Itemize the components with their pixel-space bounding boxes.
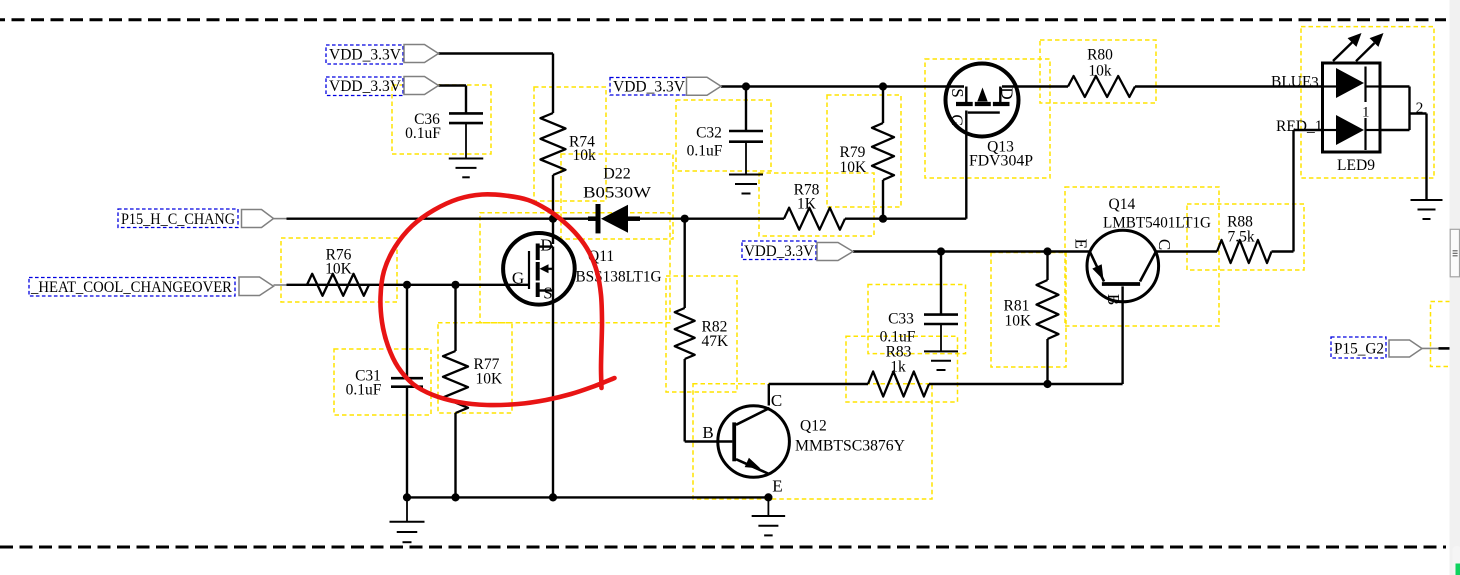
svg-text:LMBT5401LT1G: LMBT5401LT1G (1103, 215, 1211, 232)
LED LED9 (1323, 33, 1384, 174)
svg-text:BSS138LT1G: BSS138LT1G (576, 269, 662, 286)
wire R74 bottom to Q11 drain (552, 175, 554, 244)
red hand-drawn annotation circle around Q11 (380, 194, 614, 405)
svg-text:LED9: LED9 (1337, 157, 1375, 174)
svg-text:G: G (512, 269, 524, 288)
svg-text:10K: 10K (1005, 313, 1033, 330)
svg-text:MMBTSC3876Y: MMBTSC3876Y (795, 438, 905, 455)
svg-text:1K: 1K (797, 196, 817, 213)
svg-text:0.1uF: 0.1uF (405, 125, 441, 142)
wire Q14 collector to R88 (1156, 250, 1217, 252)
wire R83 to Q14 base net (929, 383, 1123, 385)
svg-text:10K: 10K (476, 371, 504, 388)
wire Q12 collector up (768, 384, 770, 406)
resistor R82 47K (675, 308, 729, 359)
net label RED pin 1 (1276, 118, 1323, 135)
wire VDD rail to R74 top (439, 54, 554, 114)
wire ground rail (407, 496, 768, 498)
resistor R77 10K (443, 351, 503, 413)
resistor R74 10k (541, 113, 597, 175)
svg-text:FDV304P: FDV304P (969, 153, 1033, 170)
transistor Q14 LMBT5401LT1G (1072, 196, 1212, 305)
svg-text:C33: C33 (888, 311, 914, 328)
wire C32 branch (745, 87, 747, 131)
scrollbar (1450, 0, 1460, 575)
svg-text:3: 3 (1311, 75, 1319, 92)
sheet border top dashed (0, 18, 1446, 21)
capacitor C31 0.1uF (346, 368, 423, 399)
svg-text:P15_G2: P15_G2 (1334, 341, 1384, 358)
wire VDD rail Q13 (721, 85, 964, 87)
svg-text:0.1uF: 0.1uF (346, 382, 382, 399)
wire LED9 right stubs to pin 2 (1380, 87, 1427, 200)
svg-text:0.1uF: 0.1uF (880, 329, 916, 346)
net label BLUE pin 3 (1271, 74, 1319, 92)
port VDD_3.3V (lower) (742, 241, 853, 261)
svg-text:2: 2 (1416, 100, 1424, 117)
svg-text:VDD_3.3V: VDD_3.3V (744, 243, 815, 260)
transistor Q13 FDV304P (946, 64, 1034, 170)
svg-text:E: E (772, 477, 782, 496)
svg-text:P15_H_C_CHANG: P15_H_C_CHANG (121, 211, 235, 228)
svg-text:_HEAT_COOL_CHANGEOVER: _HEAT_COOL_CHANGEOVER (30, 279, 233, 296)
svg-text:BLUE: BLUE (1271, 74, 1311, 91)
wire R80 to LED9 BLUE (1135, 85, 1323, 87)
wire Q11 source to ground rail (552, 291, 554, 498)
wire diode to R78 (640, 217, 784, 219)
wire C31 branch (406, 285, 408, 498)
svg-text:0.1uF: 0.1uF (687, 143, 723, 160)
ground C33 (924, 324, 958, 370)
svg-text:D: D (540, 236, 552, 255)
pin number 2 (1416, 100, 1424, 117)
wire VDD to C36 (439, 86, 467, 113)
resistor R88 7.5k (1217, 214, 1272, 264)
port VDD_3.3V (second) (326, 77, 439, 96)
svg-text:Q14: Q14 (1109, 196, 1136, 213)
wire C33 branch (940, 252, 942, 315)
wire R82 to Q12 base (685, 359, 733, 442)
diode D22 B0530W (583, 166, 652, 234)
resistor R80 10k (1068, 47, 1135, 98)
svg-text:R80: R80 (1087, 47, 1113, 64)
transistor Q11 BSS138LT1G (503, 233, 661, 305)
svg-text:10k: 10k (1088, 63, 1112, 80)
resistor R78 1K (784, 182, 845, 230)
svg-text:C: C (771, 391, 782, 410)
svg-text:D: D (997, 87, 1016, 99)
wire R82 to P15 net (684, 219, 686, 308)
svg-text:B: B (702, 423, 713, 442)
svg-text:C32: C32 (696, 125, 722, 142)
svg-text:E: E (1072, 239, 1091, 249)
transistor Q12 MMBTSC3876Y (702, 391, 905, 496)
svg-text:47K: 47K (702, 333, 730, 350)
wire R81 branch (1046, 252, 1048, 385)
wire VDD to Q14 emitter (853, 250, 1090, 252)
wire Q14 base down (1121, 286, 1123, 384)
svg-text:Q12: Q12 (800, 418, 827, 435)
wire net P15_H_C_CHANG (287, 217, 597, 219)
svg-text:VDD_3.3V: VDD_3.3V (329, 78, 402, 95)
wire Q12 collector to R83 (769, 383, 868, 385)
ground C36 (449, 124, 484, 177)
wire R79 branch (882, 87, 884, 219)
svg-text:RED_1: RED_1 (1276, 118, 1323, 135)
capacitor C36 0.1uF (405, 111, 483, 142)
svg-text:10K: 10K (325, 261, 353, 278)
ground main rail (390, 497, 425, 542)
svg-text:1: 1 (1362, 105, 1370, 121)
wire R88 to RED net (1272, 130, 1323, 252)
sheet border bottom dashed (0, 546, 1446, 549)
svg-text:D22: D22 (603, 166, 631, 183)
svg-text:10k: 10k (573, 147, 597, 164)
wire R77 branch (454, 285, 456, 498)
ground C32 (729, 143, 763, 194)
svg-text:C: C (1155, 239, 1174, 250)
resistor R81 10K (1004, 280, 1059, 339)
svg-text:B: B (1104, 294, 1123, 305)
ground LED9 pin 2 (1411, 114, 1443, 220)
svg-text:10K: 10K (840, 159, 868, 176)
port P15_H_C_CHANG (118, 209, 287, 228)
capacitor C32 0.1uF (687, 125, 763, 160)
svg-text:B0530W: B0530W (583, 185, 652, 202)
svg-text:VDD_3.3V: VDD_3.3V (329, 47, 402, 64)
wire gate net HEAT_COOL (287, 284, 530, 286)
wire R78 to Q13 gate (845, 111, 966, 219)
svg-text:G: G (948, 114, 967, 126)
svg-text:S: S (948, 88, 967, 97)
resistor R83 1k (868, 344, 929, 397)
svg-text:VDD_3.3V: VDD_3.3V (613, 79, 686, 96)
resistor R76 10K (307, 247, 369, 296)
port VDD_3.3V (middle) (610, 77, 721, 95)
ground Q12 emitter (752, 497, 786, 535)
svg-text:S: S (543, 284, 552, 303)
port P15_G2 (1331, 337, 1422, 358)
resistor R79 10K (840, 123, 895, 180)
wire P15_G2 stub (1422, 347, 1450, 349)
wire Q13 drain to R80 (1002, 85, 1068, 87)
selection highlight boxes (yellow dashed) (281, 27, 1450, 499)
port VDD_3.3V (top) (326, 45, 439, 65)
capacitor C33 0.1uF (880, 311, 958, 346)
svg-text:7.5k: 7.5k (1227, 229, 1254, 246)
port HEAT_COOL_CHANGEOVER (29, 277, 287, 296)
svg-text:1k: 1k (890, 359, 906, 376)
